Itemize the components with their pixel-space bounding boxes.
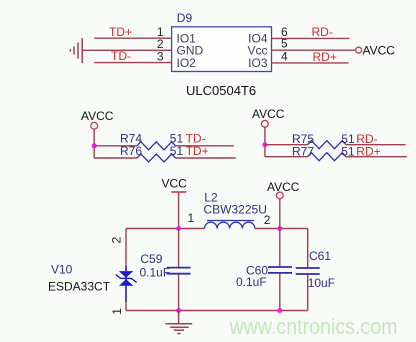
svg-text:TD-: TD- — [111, 49, 131, 63]
wire to R74 — [94, 145, 137, 147]
svg-text:AVCC: AVCC — [267, 180, 300, 194]
svg-text:2: 2 — [110, 237, 124, 244]
svg-text:www.cntronics.com: www.cntronics.com — [229, 314, 398, 339]
capacitor C59 — [178, 229, 180, 268]
svg-text:C59: C59 — [140, 252, 162, 266]
transistor V10 TVS diode — [116, 266, 137, 302]
node junction VCC — [176, 226, 181, 231]
svg-text:TD+: TD+ — [109, 25, 132, 39]
capacitor C61 — [307, 229, 309, 268]
wire pin4 RD+ — [272, 62, 349, 64]
ground (bottom earth ground) — [166, 311, 193, 334]
svg-text:51: 51 — [170, 144, 184, 158]
svg-text:D9: D9 — [177, 11, 193, 25]
op-amp U1: IC D9 body — [172, 27, 272, 72]
svg-text:2: 2 — [264, 213, 271, 227]
resistor R74 — [137, 142, 176, 150]
svg-text:RD+: RD+ — [313, 50, 337, 64]
svg-text:C61: C61 — [309, 249, 331, 263]
svg-text:3: 3 — [157, 50, 164, 64]
wire AVCC stem — [279, 199, 281, 229]
wire top rail right — [255, 228, 308, 230]
node junction — [92, 143, 97, 148]
wire R74 right — [176, 145, 235, 147]
svg-text:RD+: RD+ — [356, 144, 380, 158]
node junction C60 — [277, 308, 282, 313]
wire top rail left — [126, 228, 205, 230]
svg-text:IO3: IO3 — [248, 56, 268, 70]
wire to R76 — [94, 157, 137, 159]
svg-text:10uF: 10uF — [308, 276, 335, 290]
inductor L2 — [205, 221, 255, 229]
svg-text:ULC0504T6: ULC0504T6 — [186, 83, 256, 98]
power port AVCC (pin5) — [356, 47, 362, 53]
resistor R75 — [308, 141, 347, 149]
svg-text:CBW3225U: CBW3225U — [204, 203, 267, 217]
wire R77 right — [346, 156, 407, 158]
svg-text:R76: R76 — [120, 144, 142, 158]
wire pin6 RD- — [272, 37, 350, 39]
svg-text:AVCC: AVCC — [252, 107, 285, 121]
svg-text:4: 4 — [281, 49, 288, 63]
node junction — [262, 142, 267, 147]
svg-text:0.1uF: 0.1uF — [140, 266, 171, 280]
svg-text:IO2: IO2 — [177, 56, 197, 70]
svg-text:RD-: RD- — [312, 25, 333, 39]
svg-text:ESDA33CT: ESDA33CT — [48, 280, 111, 294]
resistor R77 — [308, 153, 347, 161]
svg-text:TD+: TD+ — [186, 144, 209, 158]
resistor R76 — [137, 154, 176, 162]
svg-text:V10: V10 — [51, 262, 73, 276]
wire R76 right — [176, 157, 236, 159]
wire pin1 TD+ — [94, 37, 171, 39]
wire pin3 TD- — [94, 62, 171, 64]
wire R75 right — [346, 144, 406, 146]
svg-text:1: 1 — [110, 308, 124, 315]
wire pin2 to ground — [82, 49, 171, 51]
wire V10 branch — [125, 229, 127, 311]
ground GND1 (rotated earth ground, left of IC) — [70, 38, 82, 63]
wire to R75 — [265, 144, 308, 146]
svg-text:AVCC: AVCC — [363, 43, 396, 57]
wire to R77 — [265, 156, 308, 158]
svg-text:VCC: VCC — [162, 177, 188, 191]
svg-text:1: 1 — [188, 211, 195, 225]
wire AVCC stem down — [264, 127, 266, 157]
node junction AVCC — [277, 226, 282, 231]
wire VCC stem — [178, 193, 180, 229]
node junction ground — [176, 308, 181, 313]
svg-text:AVCC: AVCC — [81, 109, 114, 123]
wire AVCC stem down — [93, 129, 95, 158]
wire pin5 to AVCC — [272, 49, 356, 51]
svg-text:R77: R77 — [292, 144, 314, 158]
wire bottom rail — [126, 310, 308, 312]
svg-text:0.1uF: 0.1uF — [236, 275, 267, 289]
capacitor C60 — [279, 229, 281, 267]
